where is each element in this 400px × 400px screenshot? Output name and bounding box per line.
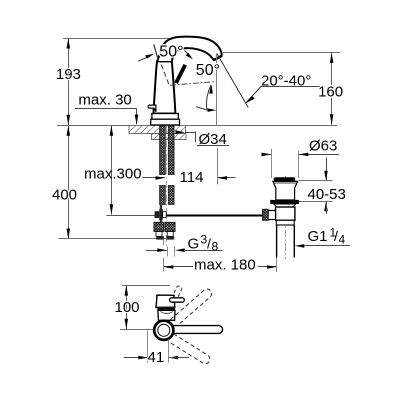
100 bottom extension — [120, 329, 156, 331]
extension line top (faucet max height) — [63, 38, 170, 40]
svg-text:max.300: max.300 — [84, 166, 142, 183]
front head block — [156, 295, 175, 307]
solid handle bar — [163, 326, 223, 334]
svg-text:41: 41 — [148, 349, 165, 366]
drain centerline — [284, 176, 286, 259]
svg-text:max. 180: max. 180 — [194, 257, 256, 274]
countertop top line — [57, 125, 337, 127]
dim 40-53 — [326, 158, 328, 181]
dim Ø63 — [271, 149, 273, 178]
neck top edge — [157, 61, 172, 63]
pull rod stubs at joint — [160, 205, 162, 209]
svg-text:160: 160 — [318, 84, 343, 101]
svg-text:193: 193 — [56, 66, 81, 83]
drain taper below locknut — [274, 204, 296, 207]
dim Ø34 — [176, 130, 186, 134]
lever ghost line vertical position — [154, 44, 159, 61]
flexible hose hatched segments — [160, 185, 166, 204]
front lever bar — [170, 298, 185, 302]
svg-text:G1: G1 — [308, 228, 328, 245]
extension line hose ends (400 bottom) — [59, 238, 171, 240]
svg-text:Ø63: Ø63 — [309, 138, 337, 155]
front body — [158, 310, 175, 320]
50deg no.2 arc — [206, 85, 211, 109]
supply hose connectors — [154, 222, 164, 231]
dim max.300 vertical — [111, 126, 113, 215]
dim 160 — [331, 53, 333, 125]
dim 41 — [147, 331, 149, 363]
faucet body and spout — [153, 37, 221, 114]
spout outlet face — [214, 56, 222, 60]
svg-text:max. 30: max. 30 — [78, 92, 131, 109]
lever (joystick) — [176, 65, 185, 83]
svg-text:20°-40°: 20°-40° — [261, 73, 311, 90]
drain plug cap (black) — [274, 177, 296, 181]
countertop slab hatched — [129, 125, 186, 133]
114 right extension line — [217, 148, 219, 185]
svg-text:8: 8 — [212, 240, 219, 254]
lever axis dash-dot line — [170, 82, 217, 86]
extension line spout outlet right — [223, 52, 340, 54]
drain left port — [268, 211, 275, 220]
drain rod nut (dark) — [263, 209, 269, 220]
drain tailpipe — [276, 225, 278, 258]
20-40deg leader — [246, 86, 262, 103]
50deg no.1 tip arrow near lever top — [185, 51, 189, 55]
drain valve body — [276, 207, 295, 220]
svg-text:100: 100 — [114, 299, 139, 316]
svg-text:/: / — [334, 228, 338, 244]
swivel range diagonal line — [217, 54, 248, 108]
dashed handle upper position — [171, 289, 212, 326]
rod joint at faucet — [159, 209, 162, 220]
spout tip vertical extension line — [216, 54, 218, 126]
drain flange — [273, 181, 298, 200]
front joint dark band — [157, 307, 175, 311]
dim 400 — [68, 126, 70, 239]
threaded shank strips — [160, 126, 166, 175]
svg-text:G: G — [188, 235, 200, 252]
mounting washer under counter — [152, 134, 187, 140]
drain lower band — [276, 220, 294, 225]
faucet base plate — [152, 114, 178, 120]
horizontal pop-up rod — [106, 215, 163, 217]
svg-text:50°: 50° — [159, 44, 183, 61]
pop-up pull rod knob (left of body) — [148, 105, 156, 112]
svg-text:40-53: 40-53 — [308, 186, 346, 203]
dashed handle lower position — [169, 334, 210, 364]
dashed lever up position — [172, 286, 182, 301]
dim 100 — [126, 286, 128, 330]
svg-text:4: 4 — [339, 233, 346, 247]
svg-text:114: 114 — [180, 169, 204, 186]
dim G3/8 — [146, 250, 167, 252]
svg-text:400: 400 — [52, 187, 77, 204]
svg-text:50°: 50° — [196, 62, 220, 79]
50deg no.1 leader arrow — [138, 57, 147, 61]
drain locknut (black) — [270, 200, 299, 204]
dim max.180 — [164, 266, 193, 268]
faucet centerline — [165, 127, 167, 247]
100 top extension — [122, 285, 170, 287]
lever vertical-position axis (dash) inside neck — [161, 65, 169, 85]
svg-text:/: / — [207, 235, 211, 251]
spout end-on circle — [154, 321, 173, 340]
dim 193 — [68, 39, 70, 126]
